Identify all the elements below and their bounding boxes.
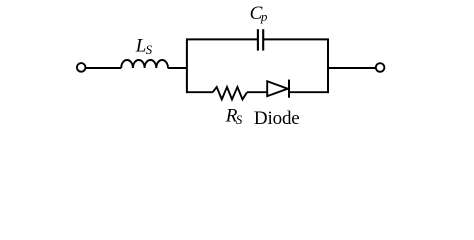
svg-text:S: S bbox=[146, 42, 153, 57]
svg-text:p: p bbox=[260, 9, 268, 24]
svg-text:S: S bbox=[236, 112, 243, 127]
svg-text:Diode: Diode bbox=[254, 108, 300, 129]
